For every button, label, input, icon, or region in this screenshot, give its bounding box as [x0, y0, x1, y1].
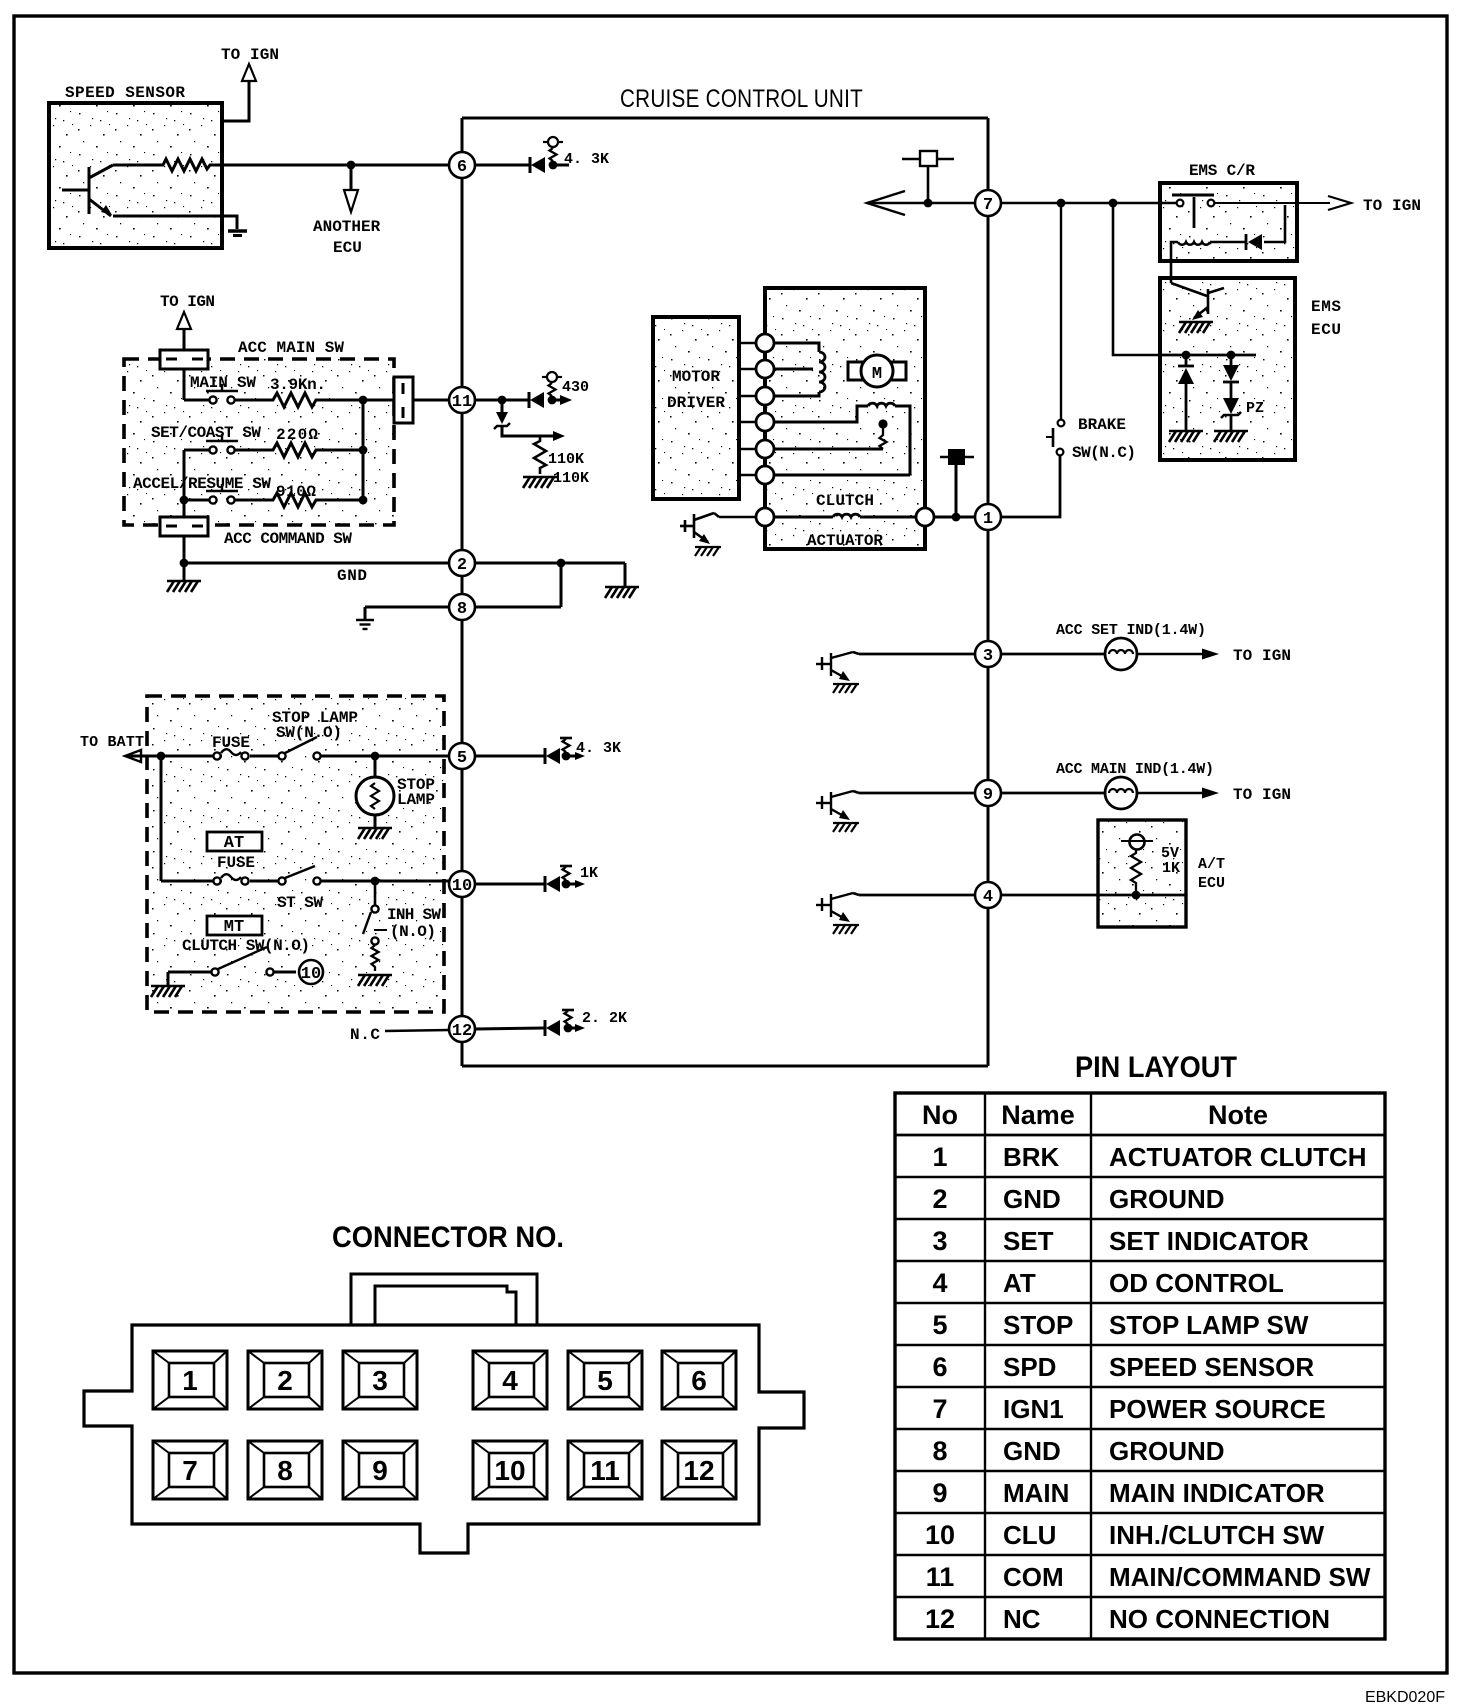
svg-text:EMS: EMS [1311, 298, 1341, 316]
svg-text:ECU: ECU [1311, 321, 1341, 339]
connector cavity 2 [248, 1351, 322, 1409]
svg-text:4. 3K: 4. 3K [564, 151, 609, 168]
svg-text:BRAKE: BRAKE [1078, 416, 1126, 434]
svg-text:5: 5 [597, 1365, 613, 1396]
svg-text:SW(N.O): SW(N.O) [276, 724, 342, 742]
svg-text:SET INDICATOR: SET INDICATOR [1109, 1226, 1309, 1256]
pin 8 circle [449, 594, 475, 620]
svg-text:3: 3 [983, 647, 993, 666]
svg-text:10: 10 [452, 877, 472, 896]
wire bulb to IGN arrow [1137, 792, 1212, 795]
wire set/coast to common node [320, 449, 363, 452]
wire st sw to pin 10 [321, 880, 449, 883]
svg-text:11: 11 [926, 1562, 955, 1592]
svg-text:ECU: ECU [333, 239, 362, 257]
A/T ECU box [1098, 820, 1186, 927]
EMS ECU box [1160, 278, 1295, 460]
left command bus vertical [183, 450, 186, 517]
switch ACCEL/RESUME SW [184, 499, 210, 502]
fuse (AT) [213, 874, 248, 884]
relay coil + diode [1264, 205, 1285, 242]
acc main sw dashed box [124, 359, 394, 525]
transistor (pin 9) [816, 791, 853, 818]
svg-text:STOP LAMP SW: STOP LAMP SW [1109, 1310, 1309, 1340]
pin 2 circle [449, 550, 475, 576]
svg-text:2: 2 [277, 1365, 293, 1396]
pin 6 circle [449, 152, 475, 178]
MT box [207, 916, 262, 935]
svg-text:TO IGN: TO IGN [221, 46, 279, 64]
svg-text:6: 6 [932, 1352, 947, 1382]
svg-text:GROUND: GROUND [1109, 1436, 1225, 1466]
ground (pin2 right) [605, 587, 639, 598]
ground (speed sensor) [228, 229, 247, 232]
svg-text:2. 2K: 2. 2K [582, 1010, 627, 1027]
wire pin 9 to bulb [1001, 792, 1105, 795]
wire to circled 10 [274, 971, 296, 974]
svg-text:ANOTHER: ANOTHER [313, 218, 381, 236]
svg-text:SPEED SENSOR: SPEED SENSOR [1109, 1352, 1314, 1382]
wire pin7 left with arrow [867, 202, 975, 205]
pin 5 input diode network 4.3K [475, 739, 581, 764]
svg-text:ACC MAIN SW: ACC MAIN SW [238, 339, 344, 357]
wire emitter to ground [113, 216, 237, 229]
svg-text:TO BATT: TO BATT [80, 734, 144, 751]
connector latch [351, 1274, 537, 1325]
pin 11 circle [449, 387, 475, 413]
svg-text:110K: 110K [553, 470, 589, 487]
fuse (stop lamp) [213, 749, 248, 759]
svg-text:Note: Note [1208, 1100, 1268, 1130]
svg-text:GND: GND [1003, 1436, 1061, 1466]
svg-text:INH./CLUTCH SW: INH./CLUTCH SW [1109, 1520, 1325, 1550]
svg-text:COM: COM [1003, 1562, 1064, 1592]
wire pin 4 into A/T ECU [1001, 894, 1186, 897]
svg-text:1: 1 [983, 510, 993, 529]
svg-text:SET/COAST SW: SET/COAST SW [151, 424, 261, 442]
pin 12 input diode network 2.2K [475, 1011, 581, 1036]
svg-text:3: 3 [372, 1365, 388, 1396]
svg-text:430: 430 [562, 379, 589, 396]
svg-text:ECU: ECU [1198, 875, 1225, 892]
ground (clutch driver) [695, 547, 721, 556]
wire acc command to GND rail [183, 536, 186, 563]
svg-text:IGN1: IGN1 [1003, 1394, 1064, 1424]
connector cavity 9 [343, 1441, 417, 1499]
svg-text:3: 3 [932, 1226, 947, 1256]
svg-text:FUSE: FUSE [217, 854, 255, 872]
node junction dot (another ECU tap) [347, 161, 356, 170]
svg-text:9: 9 [932, 1478, 947, 1508]
svg-text:5: 5 [457, 749, 467, 768]
svg-text:AT: AT [224, 834, 244, 853]
stop lamp sw dashed box [147, 696, 444, 1012]
pin 5 circle [449, 743, 475, 769]
stop lamp bulb [374, 756, 377, 778]
connector body [84, 1325, 804, 1553]
svg-text:PZ: PZ [1246, 400, 1264, 417]
connector cavity 8 [248, 1441, 322, 1499]
svg-text:ACC SET IND(1.4W): ACC SET IND(1.4W) [1056, 622, 1206, 639]
diode (EMS ECU left) [1185, 355, 1188, 365]
svg-text:Name: Name [1001, 1100, 1075, 1130]
wire accel/resume to common node [320, 499, 363, 502]
AT fuse box [207, 832, 262, 851]
wire transistor to pin 4 [853, 893, 859, 895]
switch ST SW [278, 866, 320, 885]
svg-text:M: M [872, 365, 882, 384]
earth ground (pin8 stub) [356, 620, 374, 629]
svg-text:ST SW: ST SW [277, 894, 323, 912]
svg-text:12: 12 [925, 1604, 955, 1634]
bulb ACC MAIN IND [1105, 777, 1137, 809]
connector cavity 3 [343, 1351, 417, 1409]
clutch coil row [756, 508, 774, 526]
bulb ACC SET IND [1105, 638, 1137, 670]
svg-text:CLUTCH: CLUTCH [816, 492, 874, 510]
svg-text:7: 7 [932, 1394, 947, 1424]
svg-text:1: 1 [932, 1142, 947, 1172]
connector cavity 11 [568, 1441, 642, 1499]
svg-text:6: 6 [457, 158, 467, 177]
ground (gnd rail left) [183, 563, 186, 580]
speed sensor box [49, 84, 222, 248]
resistor in speed sensor output [113, 159, 220, 171]
svg-text:N.C: N.C [350, 1026, 380, 1044]
actuator interior wiring: coil 2 [774, 406, 868, 422]
svg-text:MT: MT [224, 918, 244, 937]
transistor (pin 3) [816, 652, 853, 679]
svg-text:CLU: CLU [1003, 1520, 1056, 1550]
wire batt feed [126, 755, 222, 758]
svg-text:MAIN: MAIN [1003, 1478, 1069, 1508]
wire transistor to pin 9 [853, 791, 859, 793]
svg-text:MAIN SW: MAIN SW [190, 374, 256, 392]
transistor Q (clutch driver) [680, 513, 756, 542]
svg-text:12: 12 [452, 1022, 472, 1041]
relay contact to IGN [1215, 202, 1330, 204]
svg-text:SPD: SPD [1003, 1352, 1056, 1382]
svg-text:1: 1 [182, 1365, 198, 1396]
svg-text:5: 5 [932, 1310, 947, 1340]
connector cavity 6 [662, 1351, 736, 1409]
svg-text:ACTUATOR: ACTUATOR [807, 532, 883, 550]
svg-text:LAMP: LAMP [397, 791, 435, 809]
svg-text:10: 10 [925, 1520, 955, 1550]
svg-text:CRUISE CONTROL UNIT: CRUISE CONTROL UNIT [620, 85, 863, 113]
svg-text:7: 7 [182, 1455, 198, 1486]
svg-text:8: 8 [457, 600, 467, 619]
arrow to BATT (open left) [125, 750, 141, 762]
switch MAIN SW [206, 384, 238, 404]
svg-text:TO IGN: TO IGN [160, 293, 215, 311]
wire connector to main sw [183, 369, 186, 400]
svg-text:OD CONTROL: OD CONTROL [1109, 1268, 1284, 1298]
svg-text:MAIN INDICATOR: MAIN INDICATOR [1109, 1478, 1325, 1508]
resistor 3.9K [235, 393, 320, 407]
pin layout table [895, 1093, 1385, 1639]
connector cavity 7 [153, 1441, 227, 1499]
svg-text:11: 11 [452, 393, 472, 412]
svg-text:12: 12 [683, 1455, 714, 1486]
svg-text:SPEED SENSOR: SPEED SENSOR [65, 84, 185, 102]
INH SW [374, 881, 377, 905]
svg-text:TO IGN: TO IGN [1363, 197, 1421, 215]
wire fuse to stop lamp sw [250, 755, 279, 758]
svg-text:220Ω: 220Ω [276, 426, 318, 444]
svg-text:BRK: BRK [1003, 1142, 1060, 1172]
svg-text:9: 9 [372, 1455, 388, 1486]
pin 10 circle [449, 871, 475, 897]
arrow to IGN (hollow up) [242, 64, 256, 81]
motor driver box [653, 317, 739, 499]
svg-text:EMS C/R: EMS C/R [1189, 162, 1255, 180]
svg-text:PIN LAYOUT: PIN LAYOUT [1075, 1051, 1237, 1084]
svg-text:4: 4 [932, 1268, 947, 1298]
svg-text:3.9Kn.: 3.9Kn. [270, 376, 326, 394]
svg-text:GND: GND [1003, 1184, 1061, 1214]
svg-text:AT: AT [1003, 1268, 1036, 1298]
ground (110K) [523, 477, 557, 488]
pin 3 circle [975, 641, 1001, 667]
pin 10 input diode network 1K [475, 867, 581, 892]
svg-text:GND: GND [337, 567, 367, 585]
transistor (pin 4) [816, 893, 853, 920]
resistor 110K to ground [534, 436, 546, 474]
svg-text:910Ω: 910Ω [276, 483, 316, 501]
5V source + 1K resistor in A/T ECU [1130, 835, 1145, 850]
svg-text:4: 4 [502, 1365, 518, 1396]
svg-text:SW(N.C): SW(N.C) [1072, 444, 1136, 462]
wire to another ECU [350, 165, 353, 189]
clutch switch [151, 986, 185, 997]
svg-text:4. 3K: 4. 3K [576, 740, 621, 757]
pin 9 circle [975, 780, 1001, 806]
pin 7 circle [975, 190, 1001, 216]
wire main sw row to pin 11 [320, 399, 449, 402]
wire stop lamp sw to pin 5 [321, 755, 449, 758]
svg-text:2: 2 [932, 1184, 947, 1214]
svg-text:CLUTCH SW(N.O): CLUTCH SW(N.O) [182, 937, 310, 955]
svg-text:STOP: STOP [1003, 1310, 1073, 1340]
transistor Q inside speed sensor [62, 165, 113, 216]
wire pin2 right to ground [475, 562, 625, 565]
clutch actuator box [765, 288, 925, 549]
svg-text:10: 10 [301, 965, 321, 984]
svg-text:6: 6 [691, 1365, 707, 1396]
cruise control unit box outline [462, 118, 988, 1066]
svg-text:1K: 1K [1162, 860, 1180, 877]
svg-text:INH SW: INH SW [387, 906, 441, 924]
svg-text:TO IGN: TO IGN [1233, 786, 1291, 804]
svg-text:FUSE: FUSE [212, 734, 250, 752]
svg-text:1K: 1K [580, 865, 598, 882]
wire pin 3 to bulb [1001, 653, 1105, 656]
svg-text:11: 11 [590, 1455, 620, 1486]
fuse above pin7 wire [902, 158, 954, 160]
zener diodes PZ (EMS ECU right) [1230, 355, 1233, 365]
wire TO IGN into acc main sw [183, 329, 186, 352]
wire N.C to pin 12 [385, 1030, 449, 1031]
wires motor driver to actuator pins [739, 343, 756, 475]
svg-text:ACC MAIN IND(1.4W): ACC MAIN IND(1.4W) [1056, 761, 1214, 778]
wire actuator to pin 1 [934, 516, 976, 519]
arrow down to another ECU (hollow) [344, 190, 358, 212]
brake switch [1060, 203, 1062, 419]
wire transistor to pin 3 [853, 652, 859, 654]
wire pin7 right to EMS C/R [1001, 202, 1176, 205]
connector (acc command sw bottom) [160, 517, 208, 536]
pin 6 input diode network 4.3K [475, 148, 569, 173]
connector cavity 10 [473, 1441, 547, 1499]
actuator interior wiring: coil 1 [774, 343, 819, 352]
svg-text:8: 8 [277, 1455, 293, 1486]
wire speed sensor to pin 6 [219, 164, 449, 167]
wire into EMS ECU lower [1113, 203, 1160, 355]
connector symbol above pin1 wire [955, 465, 958, 517]
EMS C/R box [1160, 183, 1297, 261]
svg-text:POWER SOURCE: POWER SOURCE [1109, 1394, 1326, 1424]
wire bulb to IGN arrow [1137, 653, 1212, 656]
svg-text:CONNECTOR NO.: CONNECTOR NO. [332, 1221, 564, 1254]
svg-text:No: No [922, 1100, 958, 1130]
relay contacts [1172, 194, 1214, 197]
svg-text:(N.O): (N.O) [390, 923, 436, 941]
ground (stop lamp) [358, 828, 392, 839]
switch STOP LAMP SW (N.O) [278, 737, 320, 760]
resistor 910 [235, 493, 320, 507]
pin 1 circle [975, 504, 1001, 530]
ground (INH SW) [358, 975, 392, 986]
zener diode at pin 11 [498, 396, 507, 405]
svg-text:ACCEL/RESUME SW: ACCEL/RESUME SW [133, 475, 271, 493]
common node vertical wire [362, 400, 365, 500]
svg-text:8: 8 [932, 1436, 947, 1466]
pin 4 circle [975, 882, 1001, 908]
svg-text:10: 10 [494, 1455, 525, 1486]
svg-text:4: 4 [983, 888, 993, 907]
svg-text:MOTOR: MOTOR [672, 368, 720, 386]
svg-text:ACC COMMAND SW: ACC COMMAND SW [224, 530, 352, 548]
svg-text:110K: 110K [548, 451, 584, 468]
svg-text:MAIN/COMMAND SW: MAIN/COMMAND SW [1109, 1562, 1371, 1592]
connector cavity 5 [568, 1351, 642, 1409]
svg-text:DRIVER: DRIVER [667, 394, 725, 412]
connector cavity 4 [473, 1351, 547, 1409]
motor M [848, 362, 863, 380]
wire pin8 to gnd net [475, 606, 561, 609]
actuator pin circles [756, 334, 774, 484]
transistor (EMS ECU) [1171, 283, 1224, 318]
wire TO IGN from speed sensor [222, 81, 249, 121]
coil 2 center tap [774, 448, 883, 451]
svg-text:GROUND: GROUND [1109, 1184, 1225, 1214]
connector cavity 12 [662, 1441, 736, 1499]
connector cavity 1 [153, 1351, 227, 1409]
resistor 220 [235, 443, 320, 457]
wire branch down from batt node [160, 756, 163, 881]
connector (acc main sw top) [160, 350, 208, 369]
svg-text:SET: SET [1003, 1226, 1054, 1256]
svg-text:9: 9 [983, 786, 993, 805]
svg-text:2: 2 [457, 556, 467, 575]
svg-text:ACTUATOR CLUTCH: ACTUATOR CLUTCH [1109, 1142, 1367, 1172]
svg-text:EBKD020F: EBKD020F [1365, 1689, 1445, 1706]
svg-text:NO CONNECTION: NO CONNECTION [1109, 1604, 1330, 1634]
svg-text:A/T: A/T [1198, 856, 1225, 873]
pin 11 input diode network 430 [475, 383, 566, 408]
pin 12 circle [449, 1016, 475, 1042]
svg-text:NC: NC [1003, 1604, 1041, 1634]
svg-text:TO IGN: TO IGN [1233, 647, 1291, 665]
connector (acc main sw right) [394, 377, 413, 423]
svg-text:7: 7 [983, 196, 993, 215]
switch SET/COAST SW [184, 449, 210, 452]
